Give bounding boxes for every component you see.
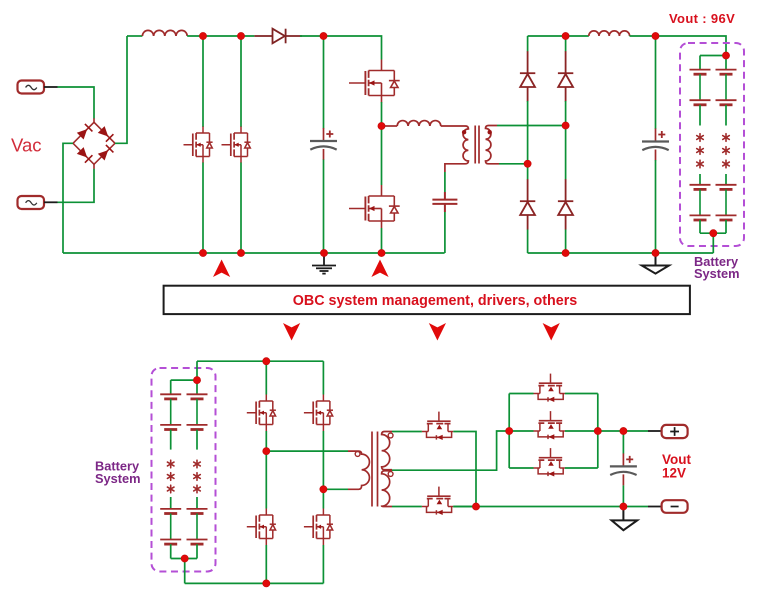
wire: rectifier right leg middle [565, 101, 567, 180]
bridge MOSFET QC (bottom-left) [247, 509, 276, 546]
wire: battery string stub [725, 105, 727, 126]
wire: middle switch left lead [509, 430, 533, 432]
capacitor: 12V output electrolytic [610, 453, 637, 485]
wire: source of PFC MOSFET Q1 [202, 163, 204, 254]
wire: top switch right lead [565, 393, 598, 395]
battery continuation asterisk [723, 160, 730, 168]
battery continuation asterisk [723, 134, 730, 142]
junction: left leg on bottom rail [263, 580, 270, 587]
red arrow (drive to DC-DC bridge) [283, 323, 300, 341]
rectifier diode right-bottom [558, 179, 573, 230]
svg-text:System: System [694, 266, 740, 281]
wire: SR bottom MOSFET to return [453, 506, 476, 508]
bridge MOSFET QD (bottom-right) [304, 509, 333, 546]
wire: QC drain [265, 451, 267, 508]
ground (open triangle) 12V output [612, 507, 638, 531]
svg-text:12V: 12V [662, 466, 686, 481]
junction: left leg on top rail [263, 358, 270, 365]
battery continuation asterisk [723, 147, 730, 155]
wire: output cap bottom lead [655, 160, 657, 253]
half-bridge high-side MOSFET [349, 60, 400, 103]
junction: SR common return [472, 503, 479, 510]
wire: battery string stub [725, 174, 727, 185]
transformer phase circle secondary-upper [388, 433, 393, 438]
wire: SR top MOSFET to return [453, 432, 476, 507]
diode: PFC boost diode [254, 29, 302, 44]
battery system box (input of 12V converter) [152, 368, 216, 572]
battery continuation asterisk [167, 485, 174, 493]
inductor: LLC resonant inductor [382, 121, 441, 126]
battery cells (96V string, upper pair) [690, 70, 711, 105]
wire: switch group left bus [508, 394, 510, 469]
rectifier diode left-bottom [520, 179, 535, 230]
junction: PFC MOSFET Q1 source on bottom rail [199, 249, 206, 256]
half-bridge low-side MOSFET [349, 185, 400, 228]
wire: battery string stub [196, 497, 198, 509]
red arrow (gate drive to half-bridge) [371, 260, 388, 278]
battery system box (96V) [680, 43, 744, 246]
battery cells (12V-side string, lower pair) [187, 509, 208, 544]
wire: QD drain [322, 489, 324, 508]
bridge MOSFET QA (top-left) [247, 395, 276, 432]
wire: battery string top stub [725, 56, 727, 70]
battery cells (96V string, upper pair) [716, 70, 737, 105]
bridge diode (top-right) [98, 126, 114, 142]
wire: source of PFC MOSFET Q2 [240, 163, 242, 254]
battery continuation asterisk [697, 134, 704, 142]
junction: rectifier right leg on return rail [562, 249, 569, 256]
junction: output cap at top rail [652, 32, 659, 39]
wire: 12V return rail [453, 506, 648, 508]
wire: battery string bottom stub [725, 220, 727, 233]
transformer phase circle primary [355, 452, 360, 457]
wire: AC line 2 [44, 169, 94, 203]
bridge diode (bottom-right) [98, 145, 114, 161]
capacitor: 96V output electrolytic [642, 129, 669, 161]
wire: AC line 1 [44, 87, 94, 119]
wire: battery positive riser [196, 361, 198, 380]
capacitor: DC bus electrolytic [310, 128, 337, 160]
junction: battery positive node [722, 52, 729, 59]
bridge MOSFET QB (top-right) [304, 395, 333, 432]
wire: secondary top to SR MOSFET [392, 431, 422, 433]
junction: rectifier right-leg midpoint [562, 122, 569, 129]
wire: battery string stub [196, 430, 198, 450]
wire: bottom switch right lead [565, 467, 598, 469]
parallel output switch MOSFET (bottom) [534, 448, 565, 476]
PFC MOSFET Q1 [184, 127, 213, 164]
transformer core [475, 126, 479, 164]
wire: half-bridge midpoint lower [381, 126, 383, 185]
wire: right midpoint to primary [323, 488, 348, 490]
wire: battery string stub [170, 497, 172, 509]
wire: battery string top stub [699, 56, 701, 70]
wire: QB drain [322, 361, 324, 394]
wire: output positive rail [598, 430, 648, 432]
rectifier diode left-top [520, 51, 535, 102]
wire: half-bridge midpoint upper [381, 102, 383, 126]
wire: bridge top rail [197, 360, 323, 362]
battery continuation asterisk [167, 473, 174, 481]
transformer phase dot secondary [488, 130, 492, 134]
input bridge rectifier [73, 118, 115, 169]
wire: battery string top stub [170, 380, 172, 394]
junction: bridge left midpoint [263, 448, 270, 455]
ground (chassis, open triangle) secondary side [642, 253, 669, 274]
wire: middle switch right lead [565, 430, 598, 432]
wire: drain of PFC MOSFET Q2 [240, 36, 242, 127]
battery continuation asterisk [697, 160, 704, 168]
junction: bridge right midpoint [320, 486, 327, 493]
junction: battery negative node (bottom battery) [181, 555, 188, 562]
wire: resonant cap top lead [444, 172, 446, 192]
battery continuation asterisk [697, 147, 704, 155]
wire: secondary bottom to SR MOSFET [392, 506, 422, 508]
wire: battery string bottom stub [699, 220, 701, 233]
wire: battery top bar [700, 55, 726, 57]
battery cells (96V string, lower pair) [716, 185, 737, 220]
junction: rectifier right leg on top rail [562, 32, 569, 39]
svg-text:System: System [95, 471, 141, 486]
wire: QD source to bottom rail [322, 545, 324, 583]
wire: battery negative to return rail [712, 233, 714, 253]
wire: QA source to midpoint [265, 431, 267, 451]
transformer phase circle secondary-lower [388, 472, 393, 477]
wire: output cap top lead [655, 36, 657, 129]
wire: QC source to bottom rail [265, 545, 267, 583]
AC input terminal 1 [18, 81, 45, 94]
ground (earth) primary side [312, 253, 336, 274]
wire: rectifier left leg top [527, 36, 529, 52]
wire: resonant cap to bottom rail [444, 212, 446, 253]
wire: battery string stub [170, 430, 172, 450]
wire: output rail to battery [630, 36, 727, 56]
junction: switch group left node [506, 427, 513, 434]
svg-text:Vout : 96V: Vout : 96V [669, 11, 735, 26]
wire: top rail [127, 35, 142, 37]
wire: battery bottom bar [700, 232, 726, 234]
wire: bridge negative to bottom rail [63, 143, 73, 253]
red arrow (drive to DC-DC transformer stage) [429, 323, 446, 341]
junction: battery negative node [710, 230, 717, 237]
wire to + terminal [648, 430, 662, 432]
wire: bus capacitor top lead [323, 36, 325, 129]
wire: primary-side bottom rail [63, 252, 445, 254]
transformer: LLC main transformer primary [441, 126, 469, 172]
capacitor: LLC resonant capacitor [432, 192, 457, 212]
wire: top rail to boost diode [187, 35, 254, 37]
wire: battery bottom bar [171, 558, 197, 560]
junction: switch group right node [594, 427, 601, 434]
transformer: LLC main transformer secondary [486, 126, 500, 164]
parallel output switch MOSFET (middle) [534, 411, 565, 439]
bridge diode (left-top) [77, 124, 93, 140]
battery cells (96V string, lower pair) [690, 185, 711, 220]
AC input terminal 2 [18, 196, 45, 209]
junction: half-bridge source on bottom rail [378, 249, 385, 256]
parallel output switch MOSFET (top) [534, 374, 565, 402]
wire: rectifier top rail [528, 35, 589, 37]
svg-text:Vac: Vac [11, 135, 42, 156]
battery continuation asterisk [194, 473, 201, 481]
wire: low-side source to bottom rail [381, 228, 383, 253]
junction: rectifier left-leg midpoint [524, 160, 531, 167]
wire: left midpoint to primary [266, 450, 348, 452]
junction: PFC MOSFET Q1 drain on top rail [199, 32, 206, 39]
junction: PFC MOSFET Q2 drain on top rail [237, 32, 244, 39]
battery cells (12V-side string, upper pair) [187, 394, 208, 429]
battery continuation asterisk [194, 460, 201, 468]
red arrow (drive to output stage) [543, 323, 560, 341]
junction: half-bridge midpoint [378, 122, 385, 129]
wire: switch group right bus [597, 394, 599, 469]
inductor: output filter inductor [589, 31, 630, 36]
battery continuation asterisk [194, 485, 201, 493]
junction: bus cap at bottom rail / ground [320, 249, 327, 256]
wire: 12V cap top lead [622, 431, 624, 454]
wire: bridge positive to top rail [115, 36, 127, 143]
rectifier diode right-top [558, 51, 573, 102]
junction: PFC MOSFET Q2 source on bottom rail [237, 249, 244, 256]
junction: output cap positive [620, 427, 627, 434]
wire: rectifier right leg bottom [565, 230, 567, 254]
wire: drain of PFC MOSFET Q1 [202, 36, 204, 127]
inductor: PFC boost inductor [142, 30, 187, 36]
junction: battery positive node (bottom battery) [193, 377, 200, 384]
wire: secondary bottom lead to rectifier [499, 163, 528, 165]
bridge diode (left-bottom) [77, 147, 93, 163]
transformer secondary lower winding [382, 471, 392, 507]
wire: battery string bottom stub [170, 544, 172, 558]
wire: secondary top lead to rectifier [497, 125, 566, 127]
wire: DC bus top to half-bridge [300, 36, 382, 60]
wire: top switch left lead [509, 393, 533, 395]
wire: QB source to midpoint [322, 431, 324, 489]
wire: rectifier right leg top [565, 36, 567, 52]
wire: battery string top stub [196, 380, 198, 394]
wire: battery top bar [171, 379, 197, 381]
wire: rectifier left leg middle [527, 101, 529, 180]
wire: QA drain [265, 361, 267, 394]
wire: bus capacitor bottom lead [323, 160, 325, 254]
wire: battery string stub [699, 174, 701, 185]
synchronous rectifier MOSFET (bottom) [422, 487, 453, 515]
wire: battery negative drop [184, 559, 186, 584]
wire to - terminal [648, 506, 662, 508]
wire: secondary-side return rail [528, 252, 714, 254]
transformer phase dot primary [462, 130, 466, 134]
battery cells (12V-side string, upper pair) [160, 394, 181, 429]
OBC system management box [164, 286, 690, 314]
wire: center tap to output switches [392, 431, 509, 470]
wire: rectifier left leg bottom [527, 230, 529, 254]
transformer secondary upper winding [382, 432, 392, 470]
battery cells (12V-side string, lower pair) [160, 509, 181, 544]
wire: battery string stub [699, 105, 701, 126]
junction: bus cap at top rail [320, 32, 327, 39]
PFC MOSFET Q2 [222, 127, 251, 164]
wire: battery string bottom stub [196, 544, 198, 558]
junction: output cap / ground on return rail [652, 249, 659, 256]
red arrow (gate drive to PFC) [213, 260, 230, 278]
output terminal - [662, 500, 688, 513]
wire: 12V cap bottom lead [622, 485, 624, 506]
transformer core (12V converter) [372, 432, 378, 507]
transformer: 12V DC-DC transformer primary [348, 451, 369, 489]
svg-text:OBC system management, drivers: OBC system management, drivers, others [293, 293, 577, 309]
wire: bridge bottom rail [185, 582, 324, 584]
battery continuation asterisk [167, 460, 174, 468]
junction: 12V return at cap/ground [620, 503, 627, 510]
wire: bottom switch left lead [509, 467, 533, 469]
synchronous rectifier MOSFET (top) [422, 412, 453, 440]
output terminal + [662, 425, 688, 438]
